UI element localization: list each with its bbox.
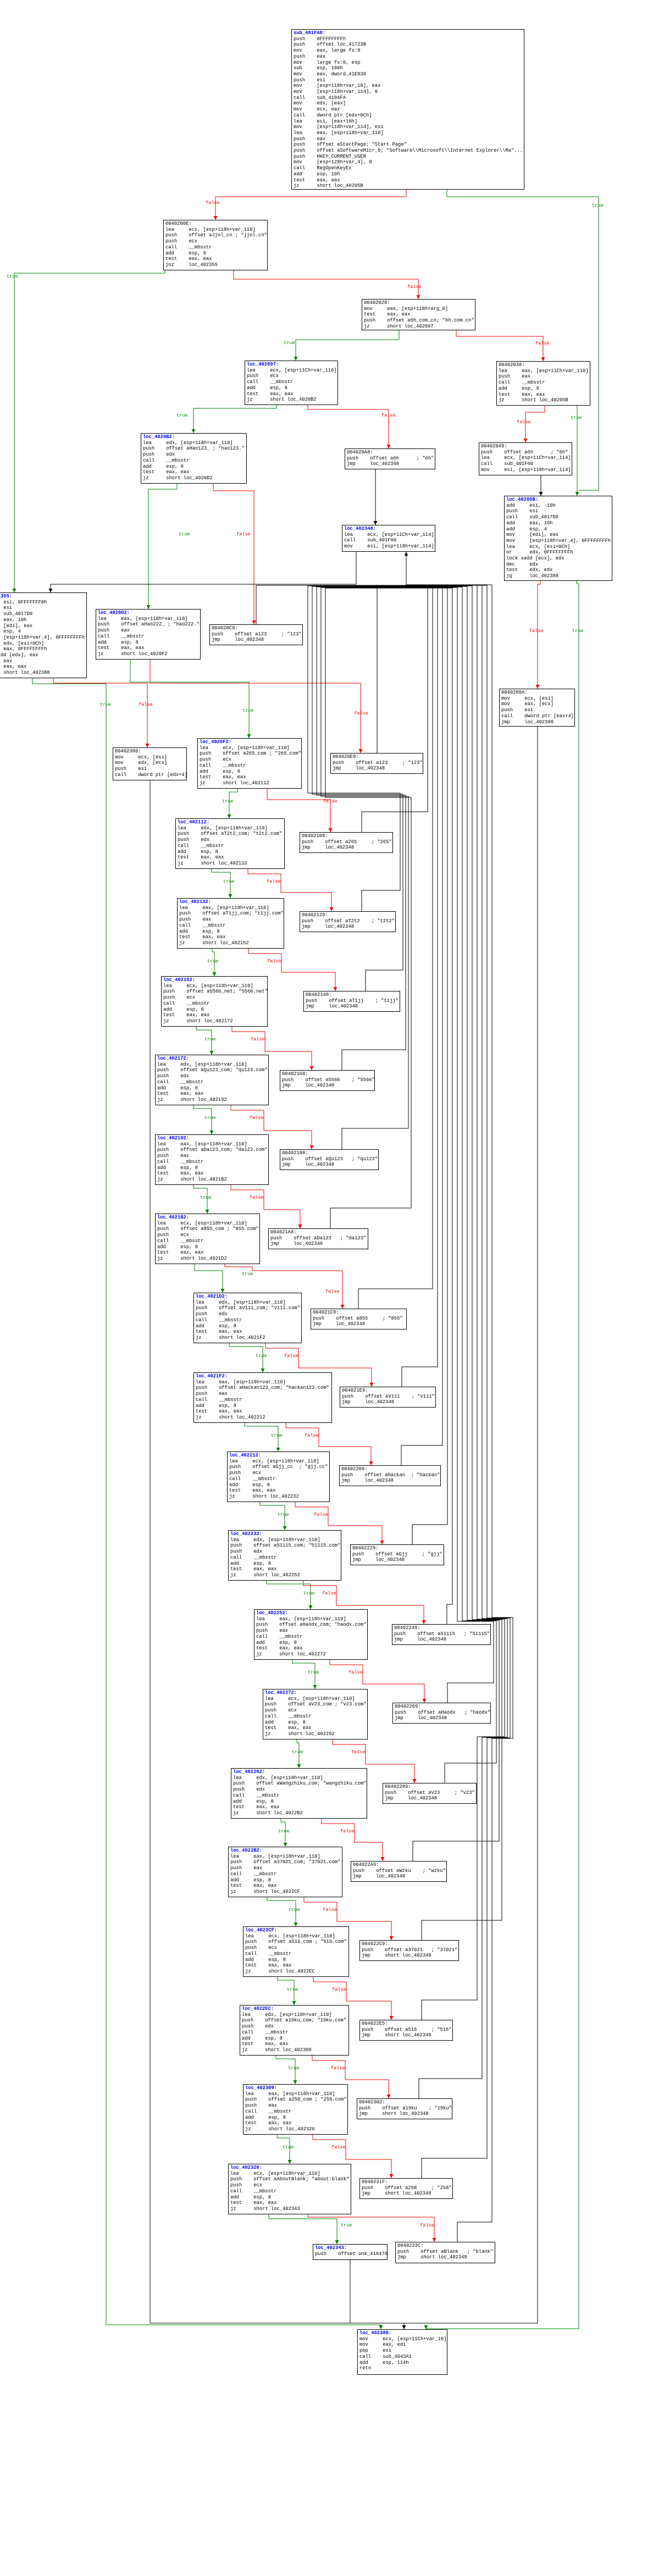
block 00402229 (350, 1544, 444, 1565)
block 0040233C (395, 2242, 495, 2263)
edge loc_402192 false -&gt; 004021A8 (231, 1185, 300, 1228)
block 00402168 (280, 1070, 375, 1091)
edge loc_402326 false -&gt; 0040233C (308, 2214, 434, 2242)
block 0040208A (499, 689, 575, 727)
block loc_4021B2 (155, 1214, 260, 1264)
block 004022A9 (351, 1861, 447, 1882)
block loc_4022CF (243, 1926, 349, 1977)
block loc_402132 (177, 898, 284, 949)
svg-text:false: false (251, 1037, 265, 1042)
block loc_402343 (313, 2244, 388, 2260)
svg-text:false: false (354, 711, 368, 716)
edge loc_402292 true -&gt; loc_4022B2 (281, 1819, 285, 1847)
svg-text:true: true (303, 1591, 315, 1596)
block loc_402212 (227, 1452, 330, 1502)
block 00402269 (392, 1703, 491, 1724)
edge loc_402112 false -&gt; 00402129 (248, 869, 331, 911)
svg-text:true: true (284, 340, 295, 346)
svg-text:true: true (222, 799, 234, 804)
block 00402188 (280, 1149, 379, 1170)
edge loc_40205B true -&gt; loc_402388 (426, 581, 579, 2329)
svg-text:false: false (351, 1749, 366, 1755)
svg-text:false: false (267, 879, 281, 884)
svg-text:false: false (420, 2223, 434, 2228)
edge loc_402192 true -&gt; loc_4021B2 (193, 1185, 207, 1214)
edge loc_402152 false -&gt; 00402168 (232, 1027, 312, 1070)
edge 00402229 -&gt; loc_402348 (406, 586, 447, 1544)
svg-text:false: false (236, 531, 251, 537)
block loc_402112 (175, 818, 285, 869)
block 004022E5 (359, 2020, 453, 2041)
svg-text:false: false (407, 284, 422, 290)
svg-text:false: false (340, 1829, 355, 1834)
svg-text:true: true (572, 628, 584, 634)
edge loc_4022EC true -&gt; loc_402309 (276, 2056, 295, 2084)
edge loc_402252 true -&gt; loc_402272 (292, 1660, 315, 1689)
svg-text:true: true (176, 413, 188, 418)
edge loc_402309 true -&gt; loc_402326 (277, 2135, 290, 2164)
edge 00402148 -&gt; loc_402348 (312, 586, 406, 991)
block 004021C9 (311, 1309, 407, 1329)
edge 004020E9 -&gt; loc_402348 (377, 586, 406, 753)
edge 0040200E true -&gt; loc_402355 (14, 270, 165, 592)
svg-text:true: true (200, 1195, 212, 1200)
edge loc_4022EC false -&gt; 00402302 (312, 2056, 389, 2098)
block 00402038 (496, 361, 590, 406)
svg-text:true: true (571, 415, 582, 420)
block loc_4021F2 (193, 1372, 332, 1423)
edge loc_402097 false -&gt; 004020A8 (308, 405, 389, 448)
block 004020A8 (345, 448, 435, 469)
edge 0040233C -&gt; loc_402348 (406, 585, 513, 2242)
edge 00402108 -&gt; loc_402348 (362, 588, 428, 832)
edge loc_402272 true -&gt; loc_402292 (297, 1740, 299, 1768)
edge loc_4021D2 false -&gt; 004021E9 (265, 1343, 372, 1387)
edge loc_4021B2 true -&gt; loc_4021D2 (195, 1264, 223, 1293)
svg-text:false: false (284, 1353, 298, 1359)
block 00402380 (113, 747, 187, 780)
svg-text:false: false (325, 1289, 340, 1294)
edge loc_402132 false -&gt; 00402148 (248, 949, 335, 991)
block 00402108 (300, 832, 393, 853)
edge 0040231F -&gt; loc_402348 (406, 585, 510, 2178)
svg-text:true: true (223, 879, 235, 884)
svg-text:false: false (305, 1433, 319, 1438)
edge loc_402388 entry from bus (403, 2323, 405, 2329)
edge loc_402355 false -&gt; 00402380 (53, 678, 147, 747)
block loc_402292 (231, 1768, 367, 1819)
block 00402249 (392, 1624, 491, 1645)
edge loc_4020F2 true -&gt; loc_402112 (229, 789, 237, 818)
svg-text:false: false (250, 1195, 264, 1200)
edge loc_402343 -&gt; loc_402388 (350, 2260, 351, 2323)
edge loc_4020D2 false -&gt; 004020E9 (150, 660, 361, 753)
svg-text:false: false (322, 1591, 336, 1596)
svg-text:false: false (535, 341, 550, 346)
block loc_402192 (155, 1134, 269, 1185)
block 004020C9 (209, 624, 303, 645)
block loc_4020F2 (197, 738, 302, 789)
edge 004022A9 -&gt; loc_402348 (406, 586, 499, 1861)
edge 004021C9 -&gt; loc_402348 (358, 588, 433, 1309)
edge loc_4020F2 false -&gt; 00402108 (267, 789, 330, 832)
svg-text:true: true (179, 531, 190, 537)
svg-text:false: false (139, 702, 153, 707)
edge 004020A8 -&gt; loc_402348 (375, 469, 376, 525)
edge 00402168 -&gt; loc_402348 (317, 587, 406, 1070)
edge 004021E9 -&gt; loc_402348 (402, 587, 438, 1387)
edge loc_4020B2 true -&gt; loc_4020D2 (148, 484, 177, 609)
block loc_402097 (245, 361, 338, 405)
edge 0040200E false -&gt; 00402028 (234, 270, 418, 299)
svg-text:true: true (100, 702, 112, 707)
edge loc_4020B2 false -&gt; 004020C9 (213, 484, 254, 624)
edge loc_4021F2 false -&gt; 00402209 (286, 1423, 371, 1465)
svg-text:false: false (250, 1115, 264, 1121)
edge loc_4021B2 false -&gt; 004021C9 (225, 1264, 342, 1309)
svg-text:false: false (323, 1907, 337, 1913)
edge sub_401FA0 true -&gt; loc_40205B (447, 190, 599, 490)
edge loc_402326 true -&gt; loc_402343 (269, 2214, 337, 2244)
edge loc_4022B2 false -&gt; 004022C9 (304, 1897, 391, 1940)
block loc_4021D2 (193, 1293, 302, 1343)
svg-text:true: true (7, 274, 18, 279)
block 00402209 (339, 1465, 441, 1486)
edge loc_402172 true -&gt; loc_402192 (193, 1105, 212, 1134)
svg-text:false: false (348, 1670, 363, 1675)
block loc_402232 (228, 1530, 341, 1581)
block 00402129 (300, 911, 396, 932)
svg-text:true: true (207, 959, 219, 964)
block loc_40205B (504, 496, 612, 581)
edge loc_402355 true -&gt; loc_402388 (32, 678, 381, 2329)
block loc_402326 (228, 2164, 351, 2214)
edge 00402049 -&gt; loc_40205B (540, 475, 541, 496)
edge loc_402097 true -&gt; loc_4020B2 (193, 405, 276, 433)
block loc_402355 (0, 592, 87, 678)
edge 00402188 -&gt; loc_402348 (321, 588, 408, 1149)
edge loc_402152 true -&gt; loc_402172 (196, 1027, 212, 1055)
svg-text:false: false (331, 2145, 346, 2150)
edge 00402380 down (150, 780, 404, 2323)
svg-text:false: false (529, 628, 544, 634)
edge loc_402232 false -&gt; 00402249 (303, 1581, 424, 1624)
block loc_402309 (243, 2084, 348, 2135)
edge 00402209 -&gt; loc_402348 (401, 586, 442, 1465)
edge 00402302 -&gt; loc_402348 (406, 585, 507, 2098)
block 004022C9 (359, 1940, 459, 1961)
block loc_402172 (155, 1055, 269, 1105)
svg-text:false: false (267, 959, 281, 964)
edge 004020C9 -&gt; loc_402348 (256, 585, 406, 624)
edge loc_4021D2 true -&gt; loc_4021F2 (229, 1343, 263, 1372)
block 004021E9 (340, 1387, 436, 1408)
block 0040231F (359, 2178, 453, 2199)
svg-text:false: false (331, 2065, 345, 2071)
edge 00402038 false -&gt; 00402049 (525, 406, 545, 442)
svg-text:true: true (256, 1353, 267, 1359)
edge loc_4022B2 true -&gt; loc_4022CF (267, 1897, 296, 1926)
svg-text:false: false (517, 419, 531, 425)
edge loc_4022CF true -&gt; loc_4022EC (278, 1977, 294, 2005)
edge 00402038 true -&gt; loc_40205B (577, 406, 578, 496)
block sub_401FA0 (291, 29, 524, 190)
edge loc_402252 false -&gt; 00402269 (330, 1660, 424, 1703)
edge loc_40205B false -&gt; 0040208A (538, 581, 540, 689)
edge loc_402212 true -&gt; loc_402232 (260, 1502, 285, 1530)
block loc_402272 (263, 1689, 368, 1740)
edge 00402028 true -&gt; loc_402097 (296, 330, 399, 361)
edge 004022C9 -&gt; loc_402348 (406, 586, 502, 1940)
svg-text:true: true (289, 1907, 300, 1913)
edge loc_402232 true -&gt; loc_402252 (267, 1581, 311, 1609)
svg-text:true: true (592, 203, 604, 208)
edge 004022E5 -&gt; loc_402348 (406, 585, 505, 2020)
edge loc_402212 false -&gt; 00402229 (295, 1502, 382, 1544)
block 00402289 (383, 1783, 477, 1804)
block 0040200E (163, 220, 268, 270)
svg-text:false: false (206, 200, 220, 206)
edge sub_401FA0 false -&gt; 0040200E (215, 190, 406, 220)
svg-text:true: true (271, 1433, 283, 1438)
svg-text:true: true (287, 1987, 298, 1992)
block 00402028 (362, 299, 475, 330)
edge loc_402348 -&gt; loc_402355 (51, 552, 356, 592)
svg-text:true: true (242, 1271, 253, 1277)
svg-text:true: true (308, 1670, 319, 1675)
svg-text:true: true (341, 2223, 352, 2228)
edge loc_402292 false -&gt; 004022A9 (322, 1819, 383, 1861)
svg-text:false: false (381, 413, 396, 418)
edge loc_402272 false -&gt; 00402289 (333, 1740, 414, 1783)
edge 00402028 false -&gt; 00402038 (456, 330, 543, 361)
edge loc_4020D2 true -&gt; loc_4020F2 (130, 660, 249, 738)
edge loc_402112 true -&gt; loc_402132 (212, 869, 230, 898)
block loc_402388 (357, 2329, 447, 2375)
edge 00402269 -&gt; loc_402348 (406, 588, 494, 1703)
edge loc_402172 false -&gt; 00402188 (231, 1105, 312, 1149)
block loc_4022EC (240, 2005, 349, 2056)
svg-text:true: true (204, 1037, 216, 1042)
svg-text:true: true (242, 708, 254, 713)
block loc_402348 (342, 525, 435, 552)
svg-text:false: false (332, 1987, 346, 1992)
svg-text:false: false (323, 799, 337, 804)
edge loc_402132 true -&gt; loc_402152 (212, 949, 214, 976)
svg-text:true: true (204, 1115, 216, 1121)
block 004020E9 (330, 753, 423, 774)
edge 00402289 -&gt; loc_402348 (406, 587, 496, 1783)
edge 004021A8 -&gt; loc_402348 (325, 588, 411, 1228)
block loc_4022B2 (228, 1847, 342, 1897)
edge loc_4022CF false -&gt; 004022E5 (313, 1977, 391, 2020)
svg-text:true: true (283, 2145, 294, 2150)
block 004021A8 (268, 1228, 368, 1249)
block loc_4020B2 (141, 433, 247, 484)
edge loc_4021F2 true -&gt; loc_402212 (245, 1423, 278, 1452)
svg-text:false: false (314, 1512, 328, 1517)
svg-text:true: true (278, 1829, 290, 1834)
edge 00402129 -&gt; loc_402348 (308, 586, 406, 911)
block loc_4020D2 (96, 609, 201, 660)
block 00402148 (303, 991, 400, 1012)
edge 00402249 -&gt; loc_402348 (406, 588, 452, 1624)
svg-text:true: true (278, 1512, 289, 1517)
svg-text:true: true (292, 1749, 303, 1755)
edge loc_402309 false -&gt; 0040231F (313, 2135, 391, 2178)
block loc_402152 (161, 976, 268, 1027)
svg-text:true: true (288, 2065, 300, 2071)
block loc_402252 (254, 1609, 368, 1660)
block 00402302 (357, 2098, 452, 2119)
edge bus arrow into loc_402348 (406, 552, 407, 588)
block 00402049 (479, 442, 572, 475)
edge 0040208A -&gt; loc_402388 and 00402380 -&gt; loc_402388 (404, 727, 538, 2323)
